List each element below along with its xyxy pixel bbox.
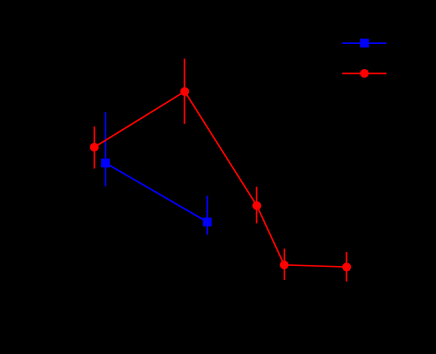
blue error bar 1	[105, 112, 107, 186]
red error bar 3	[256, 187, 258, 224]
blue marker 2	[203, 218, 212, 227]
red error bar 5	[346, 252, 348, 282]
red marker 3	[252, 201, 261, 210]
legend red entry	[342, 72, 386, 74]
blue marker 1	[101, 159, 110, 168]
legend blue entry	[342, 42, 386, 44]
red error bar 1	[93, 127, 95, 169]
red marker 5	[342, 263, 351, 272]
red marker 4	[280, 261, 289, 270]
red marker 2	[180, 87, 189, 96]
red series connecting line	[94, 92, 346, 268]
blue error bar 2	[206, 196, 208, 235]
red error bar 2	[184, 59, 186, 124]
red marker 1	[90, 143, 99, 152]
red error bar 4	[283, 249, 285, 280]
blue series connecting line	[106, 163, 208, 222]
